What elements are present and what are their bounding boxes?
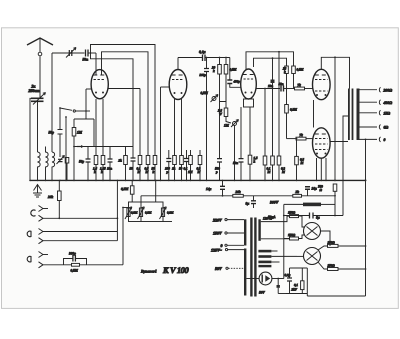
tube V5 bbox=[313, 128, 331, 158]
heater ballast tube A bbox=[304, 223, 321, 240]
svg-text:p: p bbox=[215, 170, 218, 174]
tube V3 bbox=[241, 69, 257, 99]
svg-text:0,5M: 0,5M bbox=[71, 269, 79, 273]
svg-text:50p: 50p bbox=[79, 160, 84, 164]
band switch bbox=[60, 108, 72, 110]
snubber resistor 0.1M bbox=[301, 281, 304, 290]
svg-text:50n: 50n bbox=[83, 58, 89, 62]
svg-text:300p: 300p bbox=[68, 252, 76, 256]
svg-text:M: M bbox=[300, 161, 304, 165]
pot P3 bbox=[161, 208, 164, 217]
resistor 2k bbox=[293, 194, 302, 197]
jack pair 2 bbox=[39, 229, 44, 235]
svg-text:M: M bbox=[145, 170, 149, 174]
riser from bus to pot3 bbox=[155, 180, 157, 202]
svg-text:0,5M: 0,5M bbox=[121, 187, 129, 191]
resistor 0.1M row x265 bbox=[264, 89, 266, 157]
svg-text:150Ω: 150Ω bbox=[288, 211, 296, 215]
svg-text:150Ω: 150Ω bbox=[328, 263, 336, 267]
svg-text:200Ω: 200Ω bbox=[383, 88, 393, 92]
filter choke bbox=[303, 203, 321, 207]
capacitor 300p to ground bbox=[206, 58, 208, 69]
tap 200 ohm bbox=[360, 89, 378, 91]
wire to V5 grid with resistor 7k bbox=[287, 138, 297, 140]
resistor row x148 bbox=[146, 156, 150, 165]
resistor 0.5M (V5 grid leak) bbox=[296, 138, 298, 140]
grid wire V2 to coupling cap bbox=[178, 57, 202, 59]
capacitor row x186.5 bbox=[186, 150, 188, 180]
wire from antenna circle down-left rail bbox=[51, 53, 53, 152]
trimmer across L3 bbox=[57, 156, 65, 165]
capacitor 10n row bbox=[109, 147, 111, 181]
svg-text:400p: 400p bbox=[233, 80, 241, 84]
capacitor 400p coupling to V3 bbox=[229, 58, 231, 81]
tube V4 bbox=[313, 69, 331, 99]
svg-text:0,5M: 0,5M bbox=[230, 68, 237, 72]
AVC rail bbox=[65, 116, 67, 118]
svg-text:10n: 10n bbox=[268, 84, 273, 88]
svg-text:20k: 20k bbox=[47, 195, 53, 199]
resistor 1.5k row bbox=[95, 99, 97, 156]
svg-text:7k: 7k bbox=[300, 133, 304, 137]
svg-text:1M: 1M bbox=[77, 131, 83, 135]
resistor row x181.5 (V2 pin) bbox=[181, 99, 183, 156]
capacitor 8u at transformer top bbox=[253, 196, 255, 208]
svg-text:0,1: 0,1 bbox=[294, 283, 298, 287]
series trimmer on antenna wire bbox=[52, 52, 85, 54]
svg-text:50p: 50p bbox=[49, 131, 55, 135]
svg-text:p: p bbox=[166, 170, 169, 174]
svg-text:16μ: 16μ bbox=[312, 187, 317, 191]
tap 400 ohm bbox=[360, 101, 378, 103]
wire pot 1M to bus bbox=[234, 126, 236, 181]
capacitor 16u bbox=[305, 187, 310, 190]
jack pair 3 bbox=[39, 252, 44, 258]
capacitor 100p row bbox=[168, 150, 170, 180]
resistor 2k row bbox=[125, 147, 127, 156]
coil L3 bbox=[52, 152, 55, 180]
capacitor 10n (tap) bbox=[272, 57, 274, 59]
svg-text:M: M bbox=[137, 170, 141, 174]
resistor 0.5M vertical above box bbox=[130, 186, 134, 194]
small IF box component bbox=[65, 158, 69, 164]
cathode rail tube V2 bbox=[161, 86, 170, 88]
resistor 1M (grid leak) bbox=[73, 119, 75, 128]
svg-text:8μ: 8μ bbox=[246, 202, 250, 206]
wire y119 bbox=[86, 111, 94, 119]
wire antenna branch left bbox=[30, 98, 31, 180]
svg-text:120Va~: 120Va~ bbox=[263, 217, 274, 221]
resistor 25k bbox=[292, 66, 296, 74]
grid wire into tube V1 bbox=[95, 53, 97, 75]
resistor 0.2M row x200 bbox=[198, 156, 202, 165]
snubber box wires bbox=[290, 268, 308, 296]
coil L1 bbox=[38, 152, 41, 180]
grid wire V2 top bbox=[177, 58, 179, 70]
tap 0 bbox=[360, 138, 378, 140]
resistor 0.5M (V4 grid) bbox=[286, 89, 288, 105]
svg-text:0,5M: 0,5M bbox=[297, 68, 304, 72]
wire y146 with arrow bbox=[74, 146, 133, 148]
svg-text:0: 0 bbox=[384, 138, 386, 142]
wire below tuning cap bbox=[37, 101, 39, 152]
output transformer primary bars bbox=[348, 89, 350, 141]
svg-text:400Ω: 400Ω bbox=[383, 101, 393, 105]
resistor 1.5k row x250 bbox=[249, 107, 251, 155]
volume box bbox=[129, 202, 164, 222]
heater windings (right flat bars) bbox=[258, 250, 271, 253]
svg-text:50V: 50V bbox=[259, 291, 265, 295]
svg-text:0,5M: 0,5M bbox=[131, 211, 138, 215]
ground symbol bbox=[37, 185, 39, 193]
coil L2 bbox=[46, 147, 49, 181]
capacitor 50n row x241 bbox=[240, 107, 242, 180]
heater ballast tube B bbox=[304, 248, 321, 265]
svg-text:6Ω: 6Ω bbox=[384, 126, 389, 130]
riser to bus bbox=[116, 180, 118, 240]
antenna bbox=[27, 38, 53, 45]
HV secondary bar bbox=[258, 219, 260, 241]
V3 anode wire bbox=[256, 88, 280, 90]
resistor 20k (V2 anode load) bbox=[219, 58, 221, 65]
anode wire V1 right bbox=[108, 88, 140, 90]
bottom return wire bbox=[307, 295, 365, 297]
cathode wire V1 left bbox=[86, 88, 91, 90]
tone RC: capacitor 300p bbox=[43, 264, 64, 266]
B+ rail down to rectifier bbox=[283, 204, 285, 278]
bracket and resistor 2.5k bbox=[220, 74, 227, 108]
svg-text:50: 50 bbox=[179, 167, 183, 171]
pot P2 bbox=[139, 208, 142, 217]
svg-text:M: M bbox=[267, 170, 271, 174]
svg-text:50n: 50n bbox=[233, 161, 238, 165]
resistor row x190.5 bbox=[189, 156, 193, 165]
heater wire y195.8 bbox=[141, 195, 233, 197]
svg-text:1k: 1k bbox=[172, 167, 176, 171]
B+ rail x343 (center tap) bbox=[343, 116, 348, 216]
svg-text:M: M bbox=[197, 170, 201, 174]
V5 pins down bbox=[316, 158, 318, 180]
nested box middle wire bbox=[102, 52, 149, 156]
svg-text:Dynacord: Dynacord bbox=[140, 269, 156, 273]
resistor 750 ohm bbox=[334, 180, 336, 182]
svg-text:2kV: 2kV bbox=[291, 288, 298, 292]
long rail x279 with resistor 0.2M bbox=[278, 51, 280, 53]
svg-text:150Ω: 150Ω bbox=[288, 233, 296, 237]
screen box below V3 bbox=[244, 99, 254, 107]
main ground bus bbox=[30, 179, 366, 181]
svg-text:7k: 7k bbox=[298, 83, 302, 87]
svg-text:14μ: 14μ bbox=[206, 187, 211, 191]
svg-text:50: 50 bbox=[130, 167, 134, 171]
svg-text:0,5M: 0,5M bbox=[145, 211, 152, 215]
resistor 0.5M bbox=[225, 58, 227, 65]
resistor row x155 bbox=[153, 156, 157, 165]
link tube V4 to V5 bbox=[313, 100, 315, 128]
svg-text:125V~: 125V~ bbox=[211, 247, 223, 252]
capacitor 8u bbox=[284, 215, 343, 217]
svg-text:0,5M: 0,5M bbox=[167, 211, 174, 215]
resistor 1k row (V2 pin) bbox=[174, 99, 176, 156]
svg-text:M: M bbox=[281, 170, 285, 174]
power transformer primary bar bbox=[244, 219, 246, 245]
resistor row x272.5 bbox=[272, 89, 274, 157]
tube V1 bbox=[91, 70, 108, 99]
svg-text:0,5M: 0,5M bbox=[201, 91, 209, 95]
pot P1 bbox=[127, 208, 130, 217]
power transformer core bbox=[250, 218, 252, 297]
resistor row x140 bbox=[138, 156, 142, 165]
resistor 1.25k row bbox=[102, 99, 104, 156]
svg-text:250cm: 250cm bbox=[28, 88, 40, 93]
svg-text:1M: 1M bbox=[188, 170, 193, 174]
riser to volume pot P1 bbox=[122, 208, 124, 265]
V3 outer top wire bbox=[246, 52, 294, 70]
capacitor 50n (antenna coupling) bbox=[86, 50, 89, 57]
bus junction dots bbox=[29, 180, 31, 182]
resistor 150 ohm 4 bbox=[328, 268, 339, 271]
screen rail x335 bbox=[334, 56, 336, 58]
tap 6 ohm bbox=[360, 126, 378, 128]
svg-text:8μ: 8μ bbox=[316, 216, 320, 220]
HV winding taps bbox=[261, 216, 290, 222]
svg-text:50n: 50n bbox=[279, 82, 284, 86]
tube A to bars bbox=[321, 231, 331, 246]
svg-text:2k: 2k bbox=[118, 159, 123, 163]
resistor 150 ohm 2 bbox=[290, 237, 299, 240]
resistor 7k bbox=[295, 87, 305, 90]
V3 inner top wire bbox=[254, 58, 287, 67]
svg-text:20k: 20k bbox=[235, 190, 241, 194]
svg-text:50V: 50V bbox=[215, 266, 222, 271]
V4 anode top wire bbox=[321, 57, 349, 88]
nested box outer wire bbox=[91, 45, 156, 156]
tube V2 bbox=[169, 70, 187, 100]
capacitor 500p row x219.5 bbox=[219, 102, 221, 181]
resistor 150 ohm 3 bbox=[328, 244, 339, 247]
svg-text:220V: 220V bbox=[212, 217, 222, 222]
tone RC: resistor 0.5M bbox=[72, 263, 80, 266]
capacitor row x133 bbox=[131, 158, 136, 161]
trimpot 1M bbox=[233, 122, 237, 126]
svg-text:150Ω: 150Ω bbox=[328, 240, 336, 244]
svg-text:150V: 150V bbox=[213, 231, 222, 236]
resistor 150 ohm 1 bbox=[290, 215, 299, 218]
svg-text:0,1μ: 0,1μ bbox=[199, 50, 206, 54]
output transformer secondary bar bbox=[357, 89, 360, 141]
V5 anode wire to transformer bbox=[330, 141, 348, 143]
jack pair 1 bbox=[39, 206, 44, 212]
resistor 0.5M (V3) bbox=[285, 66, 289, 74]
svg-text:0,5M: 0,5M bbox=[290, 108, 297, 112]
svg-text:300p: 300p bbox=[199, 73, 207, 77]
tap 15 ohm bbox=[360, 112, 378, 114]
svg-text:300V: 300V bbox=[269, 201, 279, 205]
svg-text:15Ω: 15Ω bbox=[384, 111, 391, 115]
svg-text:10n: 10n bbox=[107, 167, 112, 171]
svg-text:K V 100: K V 100 bbox=[162, 265, 190, 275]
nested box inner wire bbox=[91, 53, 134, 158]
resistor 20k input bbox=[58, 180, 60, 191]
rectifier tube bbox=[259, 272, 272, 285]
cap at rectifier output bbox=[277, 285, 280, 288]
winding tap wires bbox=[271, 250, 277, 252]
feedback line from tap 0 bbox=[365, 139, 367, 141]
svg-text:2k: 2k bbox=[295, 190, 300, 194]
resistor 20k heater line bbox=[233, 194, 244, 197]
series capacitor 50p on switch rail bbox=[59, 108, 61, 157]
